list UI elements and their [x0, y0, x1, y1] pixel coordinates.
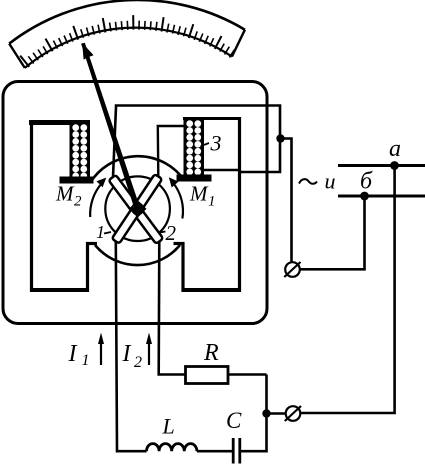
air-gap bottom arc: [95, 245, 180, 265]
junction node: [276, 134, 284, 142]
scale ticks: [20, 15, 234, 67]
wire: junction to terminal 1: [280, 139, 292, 263]
svg-text:и: и: [325, 169, 336, 194]
needle arrowhead: [82, 43, 93, 60]
wire: moving coil 2 down to R: [159, 240, 185, 375]
svg-text:а: а: [389, 136, 401, 162]
label ~ (tilde of source): [299, 179, 317, 184]
moving coil bar 2 (TR-BL): [112, 174, 162, 244]
wire terminal 1 to line b: [300, 196, 365, 269]
svg-text:I: I: [68, 341, 78, 367]
svg-text:б: б: [360, 169, 373, 195]
svg-text:C: C: [226, 408, 242, 433]
svg-text:3: 3: [210, 131, 222, 156]
svg-text:1: 1: [82, 352, 90, 369]
frame 3 / core M1 (right): [174, 117, 242, 292]
I2 current arrow: [148, 340, 150, 365]
wire: moving coil 1 top to junction via frame 3: [113, 106, 280, 178]
air-gap top arc: [90, 156, 185, 183]
svg-text:M: M: [189, 182, 209, 206]
coil M2 (winding, white dots on black): [70, 121, 91, 181]
svg-text:1: 1: [96, 222, 105, 242]
wire: moving coil 2 top to coil M1: [158, 126, 184, 177]
resistor R: [186, 367, 229, 384]
needle: [81, 43, 141, 213]
inner circle: [105, 176, 170, 241]
node a: [390, 161, 399, 170]
svg-text:M: M: [55, 182, 75, 206]
svg-text:R: R: [203, 340, 219, 366]
terminal clamp 2: [286, 406, 301, 421]
svg-text:I: I: [122, 341, 132, 367]
core M2 (left): [29, 120, 97, 292]
scale arc band: [9, 0, 245, 68]
instrument body: [3, 82, 267, 324]
svg-text:L: L: [162, 414, 175, 439]
I1 current arrow: [100, 340, 102, 365]
pole piece M2: [60, 177, 94, 184]
wire node to terminal 2: [267, 412, 286, 415]
pole piece M1: [177, 175, 212, 182]
wire terminal 2 to line a: [300, 166, 394, 414]
rotation arrow left: [90, 183, 102, 217]
wire: moving coil 1 down to L: [116, 240, 147, 451]
wire L to C: [197, 450, 232, 453]
line b: [338, 195, 425, 198]
inductor L: [147, 444, 197, 452]
rotation arrow right: [173, 183, 183, 219]
capacitor C: [232, 438, 235, 464]
wire R to node: [228, 373, 267, 376]
node b: [360, 192, 369, 201]
svg-text:2: 2: [134, 354, 142, 371]
svg-text:2: 2: [74, 194, 82, 210]
wire C to node: [241, 375, 267, 452]
svg-text:1: 1: [208, 194, 216, 210]
moving coil bar 1 (TL-BR): [109, 175, 164, 244]
terminal clamp 1: [285, 262, 300, 277]
coil M1 (winding, white dots on black): [184, 118, 205, 178]
svg-text:2: 2: [166, 221, 177, 245]
line a: [338, 164, 425, 167]
node dot RLC: [262, 409, 270, 417]
pivot blob: [131, 202, 144, 215]
